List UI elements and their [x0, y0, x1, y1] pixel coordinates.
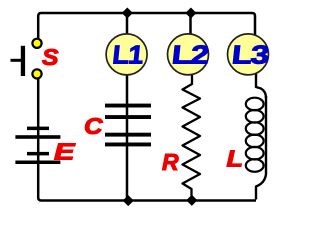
resistor R zigzag with leads	[183, 70, 201, 201]
capacitor C plate 1	[105, 104, 151, 108]
lamp L1	[106, 34, 147, 75]
switch S terminal 1	[32, 39, 41, 48]
svg-text:L1: L1	[111, 39, 145, 69]
inductor L loop 6	[246, 159, 264, 172]
wire: top rail with left corner down to switch and right corner down to L3	[38, 13, 255, 38]
lamp L2	[168, 34, 211, 75]
wire: L2 drop from top rail	[189, 13, 192, 40]
node: top junction at L2 branch	[185, 7, 196, 18]
wire: L1/C branch vertical from top rail to bottom rail	[126, 13, 129, 201]
svg-text:E: E	[54, 139, 75, 165]
svg-text:L: L	[227, 146, 244, 172]
lamp L3	[228, 34, 271, 75]
inductor L loop 5	[246, 147, 264, 160]
capacitor C plate 2	[105, 115, 151, 119]
switch S plunger bar	[21, 46, 25, 76]
battery E long plate 1	[15, 135, 60, 139]
svg-text:L2: L2	[170, 39, 210, 69]
inductor L loop 1	[246, 98, 264, 111]
node: bottom junction at C branch	[123, 195, 134, 206]
inductor L loop 3	[246, 122, 264, 135]
capacitor C plate 3	[105, 133, 151, 137]
battery E short plate 2	[27, 152, 49, 156]
node: bottom junction at R branch	[186, 195, 197, 206]
inductor L loop 4	[246, 135, 264, 148]
svg-text:R: R	[162, 149, 179, 175]
switch S terminal 2	[32, 69, 41, 78]
svg-text:S: S	[42, 44, 59, 70]
inductor L loop 2	[246, 110, 264, 123]
capacitor C plate 4	[105, 143, 151, 147]
svg-text:L3: L3	[230, 39, 270, 69]
inductor L spine	[256, 96, 266, 200]
wire: L3 to inductor top lead	[256, 70, 266, 98]
battery E short plate 1	[27, 127, 49, 131]
node: top junction at L1 branch	[122, 7, 133, 18]
battery E long plate 2	[15, 161, 60, 165]
svg-text:C: C	[84, 113, 103, 139]
wire: left branch switch to battery to bottom rail, plus bottom rail	[38, 77, 256, 201]
switch S plunger stub	[11, 59, 22, 62]
